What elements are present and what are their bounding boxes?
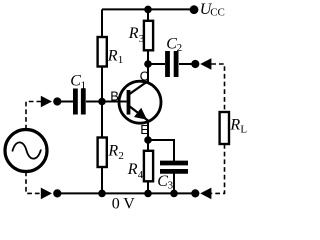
wire top rail [102,8,194,10]
wire bottom rail [57,192,195,194]
svg-text:R: R [107,143,118,160]
wire C2 to output [179,63,192,65]
svg-text:CC: CC [210,7,225,19]
input terminal dot bottom [53,189,61,197]
wire R4 bottom [147,181,149,193]
node rail C3 junction [170,190,178,198]
capacitor C1 [75,89,83,115]
node collector junction [144,60,152,68]
svg-text:4: 4 [138,169,144,181]
output terminal dot top [191,60,199,68]
dashed input top [26,102,41,130]
wire R1 top [101,9,103,38]
resistor R4 [144,151,153,182]
resistor R3 [144,21,153,51]
node rail R2 junction [98,190,106,198]
dashed output bottom [211,144,224,193]
wire C3 bottom [173,173,175,193]
node top rail R3 junction [144,6,152,14]
resistor R2 [98,138,107,168]
node base junction [98,98,106,106]
svg-text:1: 1 [118,54,124,66]
wire node B to R2 [101,102,103,139]
svg-text:2: 2 [177,42,183,54]
svg-text:1: 1 [81,79,87,91]
source sine wave [12,142,41,158]
output arrow top [200,58,211,70]
svg-text:R: R [128,25,139,42]
source sine generator [5,130,47,172]
svg-text:E: E [140,122,149,137]
svg-text:3: 3 [139,33,145,45]
wire node C to C2 [148,63,165,65]
wire input dot to C1 [57,101,73,103]
transistor collector line [130,81,148,94]
wire R2 bottom [101,167,103,194]
resistor RL [220,112,229,144]
wire R1 bottom to node B [101,66,103,102]
transistor emitter line [130,107,148,121]
capacitor C3 [160,163,188,171]
wire collector vertical [147,64,149,82]
wire R3 top [147,9,149,21]
wire emitter vertical [147,120,149,140]
capacitor C2 [168,51,177,77]
wire node E to C3 [148,140,174,161]
input arrow bottom [41,188,52,200]
transistor base bar [127,90,131,115]
svg-text:R: R [229,117,240,134]
wire C1 to node B [86,101,102,103]
dashed input bottom [26,172,41,194]
svg-text:B: B [110,88,119,103]
transistor Q1 circle [119,81,161,123]
node emitter junction [144,136,152,144]
input arrow top [41,96,52,108]
wire R3 bottom to node C [147,50,149,64]
resistor R1 [98,37,107,67]
output terminal dot bottom [191,189,199,197]
node rail R4 junction [144,190,152,198]
svg-text:2: 2 [118,150,124,162]
svg-text:C: C [140,68,149,83]
output arrow bottom [200,188,211,200]
transistor emitter arrowhead [134,108,147,120]
input terminal dot top [53,97,61,105]
svg-text:R: R [107,47,118,64]
svg-text:R: R [127,161,138,178]
dashed output top [211,64,224,112]
wire base [102,101,127,103]
svg-text:0: 0 [112,195,120,212]
svg-text:L: L [240,124,247,136]
terminal UCC dot [190,5,199,14]
wire node E to R4 [147,140,149,152]
svg-text:V: V [123,195,135,212]
